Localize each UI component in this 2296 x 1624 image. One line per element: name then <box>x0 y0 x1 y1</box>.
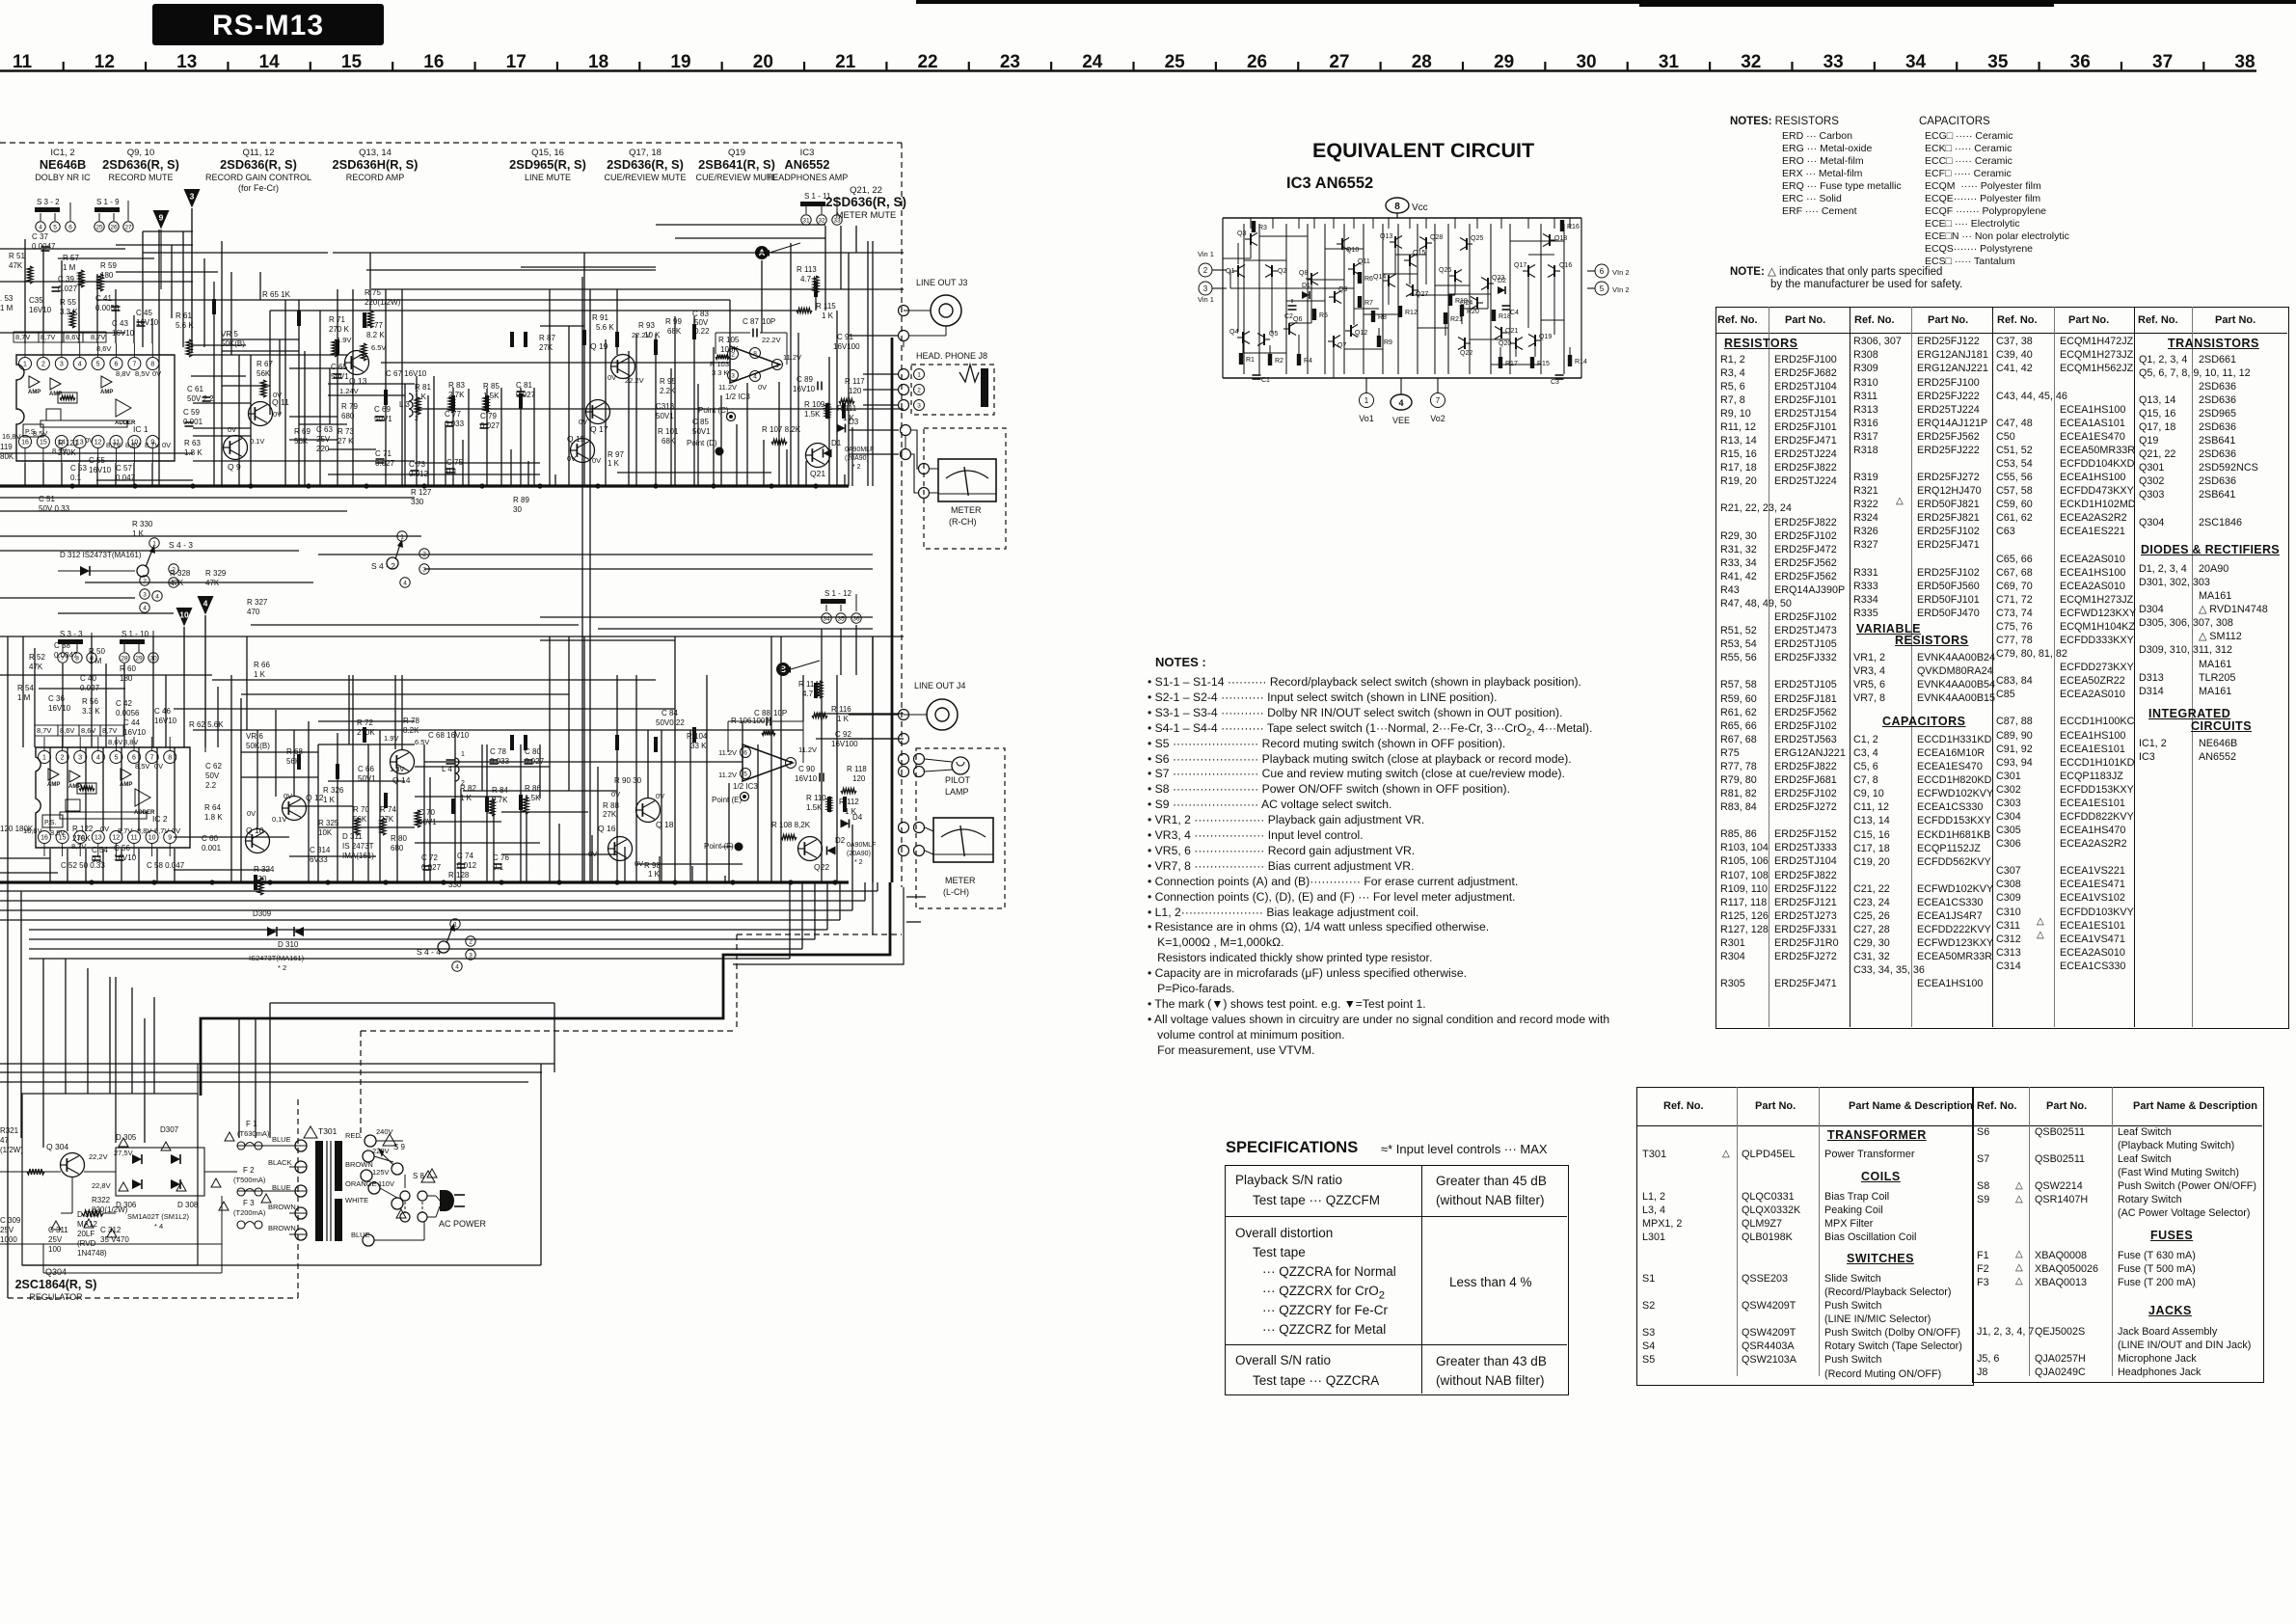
svg-text:VR 6: VR 6 <box>246 732 263 741</box>
wire <box>158 230 160 486</box>
wire <box>133 448 135 463</box>
svg-text:50V: 50V <box>205 771 220 780</box>
svg-text:R 85: R 85 <box>483 382 500 391</box>
svg-text:120 180K: 120 180K <box>0 825 34 833</box>
wire <box>697 384 699 486</box>
svg-text:14: 14 <box>259 52 281 72</box>
capacitor symbol <box>41 246 50 248</box>
wire <box>589 289 591 882</box>
wire <box>863 373 899 375</box>
svg-text:5: 5 <box>1600 284 1605 293</box>
transistor Q9 (IC3 internal) <box>1334 291 1336 303</box>
wire <box>318 744 415 745</box>
wire <box>24 343 26 357</box>
svg-text:R 110: R 110 <box>806 794 826 802</box>
svg-text:4: 4 <box>403 580 407 586</box>
wire <box>911 454 918 493</box>
wire <box>1487 289 1489 309</box>
transistor Q17 <box>586 400 610 424</box>
ruler line <box>0 69 2256 72</box>
wire <box>269 1003 271 1138</box>
svg-text:NE646B: NE646B <box>40 157 86 172</box>
wire <box>394 675 396 749</box>
svg-text:38: 38 <box>2234 52 2255 72</box>
svg-text:C 81: C 81 <box>516 381 532 390</box>
svg-text:0V: 0V <box>273 391 282 399</box>
IC1 P.S. box <box>23 424 43 437</box>
safety mark <box>261 1194 271 1203</box>
wire <box>849 453 899 455</box>
svg-text:D2: D2 <box>1498 278 1506 284</box>
svg-text:30: 30 <box>513 505 522 514</box>
capacitor symbol <box>480 423 489 425</box>
pin 7 Vo2 <box>1431 393 1445 408</box>
svg-text:2: 2 <box>143 578 147 584</box>
wire <box>0 1071 542 1073</box>
svg-text:11: 11 <box>130 835 137 842</box>
svg-text:2: 2 <box>41 362 45 368</box>
resistor R15 (IC3 internal) <box>1530 357 1534 368</box>
node pins 4 5 6 <box>36 222 45 231</box>
wire <box>1395 254 1426 256</box>
wire <box>183 627 185 675</box>
svg-text:0V: 0V <box>154 762 163 771</box>
wire <box>191 208 193 352</box>
svg-text:R2: R2 <box>1275 358 1283 365</box>
node pins 2 3 4 (S4-3 feed) <box>140 576 149 585</box>
svg-text:C35: C35 <box>29 296 43 305</box>
wire <box>1397 224 1399 374</box>
svg-text:2: 2 <box>1203 266 1208 275</box>
svg-text:270 K: 270 K <box>329 325 350 334</box>
wire <box>257 730 258 829</box>
wire <box>1285 224 1287 374</box>
wire <box>0 510 347 512</box>
svg-text:C 66: C 66 <box>358 765 374 773</box>
IC2 pin 11 <box>128 831 141 844</box>
wire <box>337 733 338 882</box>
wire <box>352 675 354 882</box>
wire <box>24 448 26 463</box>
svg-text:R 99: R 99 <box>665 317 682 326</box>
resistor symbol <box>260 380 266 397</box>
wire <box>0 1063 554 1065</box>
svg-text:Q21: Q21 <box>810 469 825 478</box>
meter R-CH dashed box <box>924 428 1006 549</box>
wire <box>246 636 248 730</box>
svg-text:0V: 0V <box>284 792 292 800</box>
wire <box>598 628 873 630</box>
wire <box>540 325 584 327</box>
wire <box>143 230 193 232</box>
svg-text:C2: C2 <box>1284 313 1293 320</box>
wire <box>182 231 184 347</box>
wire <box>115 737 117 750</box>
diode D1 <box>824 449 832 458</box>
test point 10 <box>176 608 193 627</box>
wire <box>814 882 816 939</box>
wire <box>1343 224 1345 374</box>
svg-text:Q 18: Q 18 <box>656 820 674 829</box>
svg-text:1000: 1000 <box>0 1235 17 1244</box>
wire <box>191 344 246 346</box>
printed resistor mark <box>827 797 831 812</box>
wire <box>369 253 371 311</box>
svg-text:2: 2 <box>61 755 65 762</box>
wire <box>58 257 154 259</box>
svg-text:D 305: D 305 <box>116 1133 137 1142</box>
wire <box>742 721 743 744</box>
svg-text:C 78: C 78 <box>490 747 506 756</box>
svg-text:AMP: AMP <box>47 782 60 788</box>
printed resistor mark <box>814 683 818 698</box>
wire <box>848 253 850 486</box>
wire <box>217 687 219 747</box>
svg-text:Q 304: Q 304 <box>46 1142 68 1151</box>
wire <box>151 448 153 463</box>
wire <box>659 856 661 882</box>
svg-text:R322: R322 <box>92 1196 111 1204</box>
wire <box>1353 218 1355 229</box>
svg-text:R 63: R 63 <box>184 439 201 447</box>
wire <box>91 636 93 747</box>
wire <box>581 277 583 882</box>
wire <box>424 761 743 763</box>
wire <box>635 334 637 486</box>
svg-text:R 69: R 69 <box>294 427 311 436</box>
svg-text:16V10: 16V10 <box>29 306 52 314</box>
bottom-left misc wires <box>0 1171 61 1173</box>
resistor R17 (IC3 internal) <box>1499 357 1502 368</box>
transistor Q20 (IC3 internal) <box>1515 338 1517 349</box>
svg-text:R 326: R 326 <box>323 786 344 795</box>
svg-text:47K: 47K <box>29 663 43 671</box>
svg-text:2SD636(R, S): 2SD636(R, S) <box>220 157 297 172</box>
svg-text:1/2 IC3: 1/2 IC3 <box>733 782 758 791</box>
wire <box>1462 308 1488 310</box>
svg-text:* 4: * 4 <box>154 1222 163 1231</box>
svg-text:C 71: C 71 <box>375 449 392 458</box>
printed resistor mark <box>384 793 388 808</box>
svg-text:15: 15 <box>40 440 47 447</box>
point E <box>741 793 749 801</box>
diode D312 symbol <box>80 566 90 576</box>
wire <box>240 698 242 882</box>
svg-text:4: 4 <box>39 224 42 230</box>
svg-text:0V: 0V <box>162 441 171 449</box>
svg-text:R 325: R 325 <box>318 819 339 827</box>
wire <box>61 463 63 486</box>
wire <box>906 921 921 923</box>
printed resistor mark <box>519 795 523 810</box>
wire <box>366 269 656 271</box>
wire <box>304 351 306 486</box>
wire <box>549 636 551 882</box>
svg-text:C 88: C 88 <box>754 709 770 717</box>
svg-text:Q 10: Q 10 <box>246 826 264 835</box>
rotary switch S4-4 <box>450 919 460 929</box>
safety mark <box>427 1169 437 1177</box>
svg-text:C4: C4 <box>1510 310 1519 316</box>
wire <box>97 448 99 463</box>
transistor Q15 (IC3 internal) <box>1409 255 1411 266</box>
svg-text:110V: 110V <box>378 1179 394 1188</box>
wire <box>591 835 593 882</box>
wire <box>1461 316 1463 324</box>
svg-text:10P: 10P <box>762 317 775 326</box>
svg-text:32: 32 <box>1741 52 1761 72</box>
svg-text:R 117: R 117 <box>845 377 865 386</box>
wire <box>318 554 873 555</box>
wire <box>1244 259 1286 261</box>
resistor symbol <box>367 311 373 328</box>
wire <box>1454 218 1456 229</box>
wire <box>816 713 904 715</box>
svg-text:29: 29 <box>1494 52 1514 72</box>
wire <box>1363 224 1364 374</box>
svg-text:SM1A02T (SM1L2): SM1A02T (SM1L2) <box>127 1212 190 1221</box>
wire <box>105 663 107 747</box>
wire <box>801 882 803 949</box>
transistor Q1 (IC3 internal) <box>1237 265 1239 277</box>
svg-text:0V: 0V <box>172 826 180 835</box>
wire <box>789 882 791 959</box>
svg-text:27K: 27K <box>539 343 554 352</box>
wire <box>655 334 657 486</box>
wire <box>222 350 299 352</box>
resistor R14 (IC3 internal) <box>1568 355 1572 366</box>
wire <box>1569 218 1571 229</box>
svg-text:1.8 K: 1.8 K <box>204 813 223 822</box>
svg-text:R 86: R 86 <box>525 784 541 793</box>
svg-text:2SB641(R, S): 2SB641(R, S) <box>698 157 775 172</box>
svg-text:4: 4 <box>78 362 82 368</box>
IC2 pin 13 <box>92 831 104 844</box>
wire <box>693 316 695 486</box>
wire <box>616 675 618 882</box>
wire <box>1243 224 1245 374</box>
wire <box>0 497 415 499</box>
transistor Q9 <box>224 436 248 460</box>
capacitor C2 (IC3) <box>1288 305 1297 307</box>
svg-text:50K(B): 50K(B) <box>221 339 245 348</box>
wire <box>62 737 64 750</box>
svg-text:R 91: R 91 <box>592 313 608 322</box>
IC1 pin 4 <box>73 358 86 370</box>
wire <box>583 253 585 486</box>
heavy stepped bus <box>201 882 890 1096</box>
wire <box>85 849 87 882</box>
wire <box>1491 364 1541 365</box>
capacitor symbol <box>376 416 385 418</box>
svg-text:35 V470: 35 V470 <box>100 1235 129 1244</box>
svg-text:D307: D307 <box>160 1125 179 1134</box>
svg-text:330: 330 <box>411 498 424 506</box>
wire <box>319 311 321 486</box>
svg-text:0V: 0V <box>247 809 256 818</box>
svg-text:(L-CH): (L-CH) <box>943 887 969 897</box>
wire <box>144 1018 146 1143</box>
wire <box>67 747 68 831</box>
printed resistor mark <box>485 395 489 411</box>
wire <box>61 343 63 357</box>
wire <box>96 274 98 343</box>
svg-text:50V1: 50V1 <box>358 774 376 783</box>
wire <box>174 708 675 710</box>
svg-text:R 327: R 327 <box>247 598 268 607</box>
transistor Q18 <box>636 798 661 823</box>
svg-text:S 1 - 12: S 1 - 12 <box>824 589 852 598</box>
printed resistor mark <box>510 332 514 347</box>
wire <box>647 730 649 798</box>
transistor Q18 (IC3 internal) <box>1549 234 1551 246</box>
wire <box>191 354 347 356</box>
wire <box>617 472 771 474</box>
wire <box>1250 218 1252 229</box>
svg-text:VIn 2: VIn 2 <box>1612 268 1630 277</box>
svg-text:3: 3 <box>731 372 735 379</box>
svg-text:10: 10 <box>179 610 189 620</box>
wire <box>204 615 206 752</box>
svg-text:27 K: 27 K <box>338 437 354 446</box>
wire <box>713 347 715 486</box>
wire <box>174 869 270 871</box>
wire <box>691 866 693 882</box>
wire <box>193 460 415 462</box>
wire <box>131 988 133 1094</box>
point F <box>735 843 743 852</box>
svg-text:VR 5: VR 5 <box>221 330 238 338</box>
svg-text:220: 220 <box>316 445 330 453</box>
svg-text:1 M: 1 M <box>17 693 31 702</box>
svg-text:8,7V: 8,7V <box>154 826 169 835</box>
svg-text:1: 1 <box>775 362 779 368</box>
wire <box>867 241 869 486</box>
resistor R8 (IC3 internal) <box>1371 311 1375 322</box>
svg-text:IS 2473T: IS 2473T <box>342 842 374 851</box>
resistor R6 (IC3 internal) <box>1358 272 1362 284</box>
pin 6 Vin2 <box>1595 264 1608 278</box>
IC2 pin 12 <box>110 831 122 844</box>
svg-text:2.2K: 2.2K <box>660 387 676 395</box>
wire <box>486 744 488 882</box>
svg-text:C 79: C 79 <box>480 412 497 420</box>
transistor Q12 <box>283 797 307 821</box>
transformer T301 primary terminals <box>295 1140 307 1151</box>
wire <box>1476 218 1478 229</box>
wire <box>49 849 51 882</box>
wire <box>824 226 826 311</box>
svg-text:C 74: C 74 <box>457 852 473 860</box>
svg-text:C 45: C 45 <box>136 309 152 317</box>
wire <box>1333 218 1335 229</box>
wire <box>241 693 569 695</box>
wire <box>805 461 807 486</box>
wire <box>1435 284 1470 286</box>
wire <box>872 636 874 934</box>
IC2 pin 2 <box>56 751 68 764</box>
IC2 pin 15 <box>56 831 68 844</box>
svg-text:D 306: D 306 <box>116 1201 137 1209</box>
wire <box>142 231 144 347</box>
IC2 pin 14 <box>74 831 87 844</box>
svg-text:REGULATOR: REGULATOR <box>29 1292 83 1302</box>
svg-text:D3: D3 <box>849 418 859 426</box>
wire <box>24 239 26 343</box>
svg-text:2: 2 <box>917 387 921 393</box>
resistor R18 (IC3 internal) <box>1492 310 1496 321</box>
wire <box>1229 270 1231 288</box>
wire <box>193 427 251 429</box>
capacitor symbol <box>494 863 502 865</box>
wire <box>706 675 708 882</box>
wire <box>1313 218 1315 229</box>
wire <box>289 805 353 807</box>
wire <box>333 252 904 254</box>
svg-text:1 M: 1 M <box>89 657 102 665</box>
svg-text:0A90MLF: 0A90MLF <box>847 842 876 849</box>
wire <box>423 744 425 882</box>
wire <box>156 849 158 882</box>
svg-text:Q22: Q22 <box>1460 350 1472 357</box>
svg-text:16,8V: 16,8V <box>2 432 21 441</box>
printed resistor mark <box>825 403 829 419</box>
pin 3 Vin1 <box>1199 282 1212 295</box>
svg-text:1 K: 1 K <box>822 311 834 320</box>
wire <box>821 681 823 882</box>
bus junction dots <box>69 483 74 488</box>
svg-text:S 4 - 3: S 4 - 3 <box>169 540 193 550</box>
svg-text:8,7V: 8,7V <box>102 726 117 735</box>
wire <box>1325 248 1364 250</box>
wire <box>1242 343 1244 353</box>
capacitor symbol <box>525 759 533 761</box>
svg-text:R 79: R 79 <box>341 402 358 411</box>
pilot lamp + meter L-CH dashed box <box>916 748 1005 908</box>
wire <box>151 737 153 750</box>
svg-text:3: 3 <box>469 952 473 959</box>
wire <box>797 333 799 486</box>
svg-text:R 104: R 104 <box>687 732 708 741</box>
capacitor symbol <box>116 855 124 857</box>
IC2 pin 7 <box>146 751 158 764</box>
svg-text:8,5V: 8,5V <box>50 828 65 837</box>
wire <box>171 245 173 318</box>
wire <box>1388 286 1390 305</box>
wire <box>872 241 874 486</box>
wire <box>0 550 299 552</box>
printed resistor mark <box>212 299 216 314</box>
wire <box>433 376 435 486</box>
wire <box>675 237 825 239</box>
wire <box>213 282 215 486</box>
svg-text:Q14: Q14 <box>1373 274 1386 281</box>
svg-text:AMP: AMP <box>28 390 41 395</box>
svg-text:BLUE: BLUE <box>272 1135 291 1144</box>
svg-text:2: 2 <box>461 780 465 787</box>
svg-text:35: 35 <box>1987 52 2009 72</box>
svg-text:* 2: * 2 <box>852 464 861 471</box>
svg-text:HEADPHONES AMP: HEADPHONES AMP <box>767 173 849 182</box>
wire <box>250 355 252 486</box>
wire <box>1541 319 1564 321</box>
svg-text:0V: 0V <box>656 792 664 800</box>
svg-text:11: 11 <box>13 52 33 72</box>
transistor Q22 <box>798 837 823 861</box>
svg-text:8,6V: 8,6V <box>96 344 111 353</box>
svg-text:2SD636(R, S): 2SD636(R, S) <box>102 157 179 172</box>
wire <box>116 271 218 273</box>
